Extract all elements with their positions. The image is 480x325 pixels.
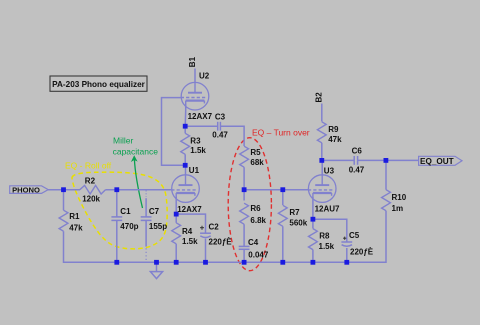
svg-text:PA-203 Phono equalizer: PA-203 Phono equalizer [52,80,145,89]
svg-text:C1: C1 [120,207,131,216]
svg-text:220ƒÈ: 220ƒÈ [209,237,233,246]
svg-text:EQ – Turn over: EQ – Turn over [252,128,310,138]
svg-text:470p: 470p [120,222,138,231]
svg-text:R4: R4 [182,227,193,236]
svg-text:47k: 47k [69,223,83,232]
svg-text:1.5k: 1.5k [319,242,335,251]
svg-text:C4: C4 [248,238,259,247]
svg-text:R9: R9 [328,125,339,134]
svg-text:B2: B2 [314,92,323,103]
svg-text:6.8k: 6.8k [250,216,266,225]
svg-text:C7: C7 [149,207,160,216]
svg-text:R5: R5 [250,148,261,157]
svg-text:120k: 120k [82,194,100,203]
svg-text:U3: U3 [324,166,335,175]
svg-text:U2: U2 [199,71,210,80]
svg-text:R6: R6 [250,204,261,213]
svg-text:R2: R2 [85,176,96,185]
svg-text:PHONO: PHONO [12,186,40,195]
svg-text:220ƒÈ: 220ƒÈ [350,247,374,256]
svg-text:R10: R10 [392,193,407,202]
svg-text:C3: C3 [215,113,226,122]
svg-text:47k: 47k [328,135,342,144]
svg-text:B1: B1 [188,56,197,67]
svg-text:R8: R8 [319,232,330,241]
svg-text:C2: C2 [209,222,220,231]
svg-text:0.047: 0.047 [248,250,269,259]
svg-text:12AX7: 12AX7 [177,205,202,214]
svg-text:R7: R7 [289,208,300,217]
svg-text:68k: 68k [250,158,264,167]
svg-text:560k: 560k [289,218,307,227]
svg-text:EQ_OUT: EQ_OUT [420,157,454,166]
svg-text:1m: 1m [392,204,404,213]
svg-text:0.47: 0.47 [349,166,365,175]
svg-text:155p: 155p [149,222,167,231]
svg-text:0.47: 0.47 [212,130,228,139]
svg-text:R1: R1 [69,212,80,221]
svg-text:U1: U1 [189,166,200,175]
svg-text:1.5k: 1.5k [182,237,198,246]
svg-text:EQ - Roll off: EQ - Roll off [65,160,112,170]
svg-text:C5: C5 [349,231,360,240]
svg-text:C6: C6 [352,147,363,156]
svg-text:Miller: Miller [113,135,133,145]
svg-text:R3: R3 [190,136,201,145]
svg-text:capacitance: capacitance [113,146,159,156]
svg-text:12AU7: 12AU7 [315,204,340,213]
svg-text:12AX7: 12AX7 [188,112,213,121]
svg-text:1.5k: 1.5k [190,146,206,155]
